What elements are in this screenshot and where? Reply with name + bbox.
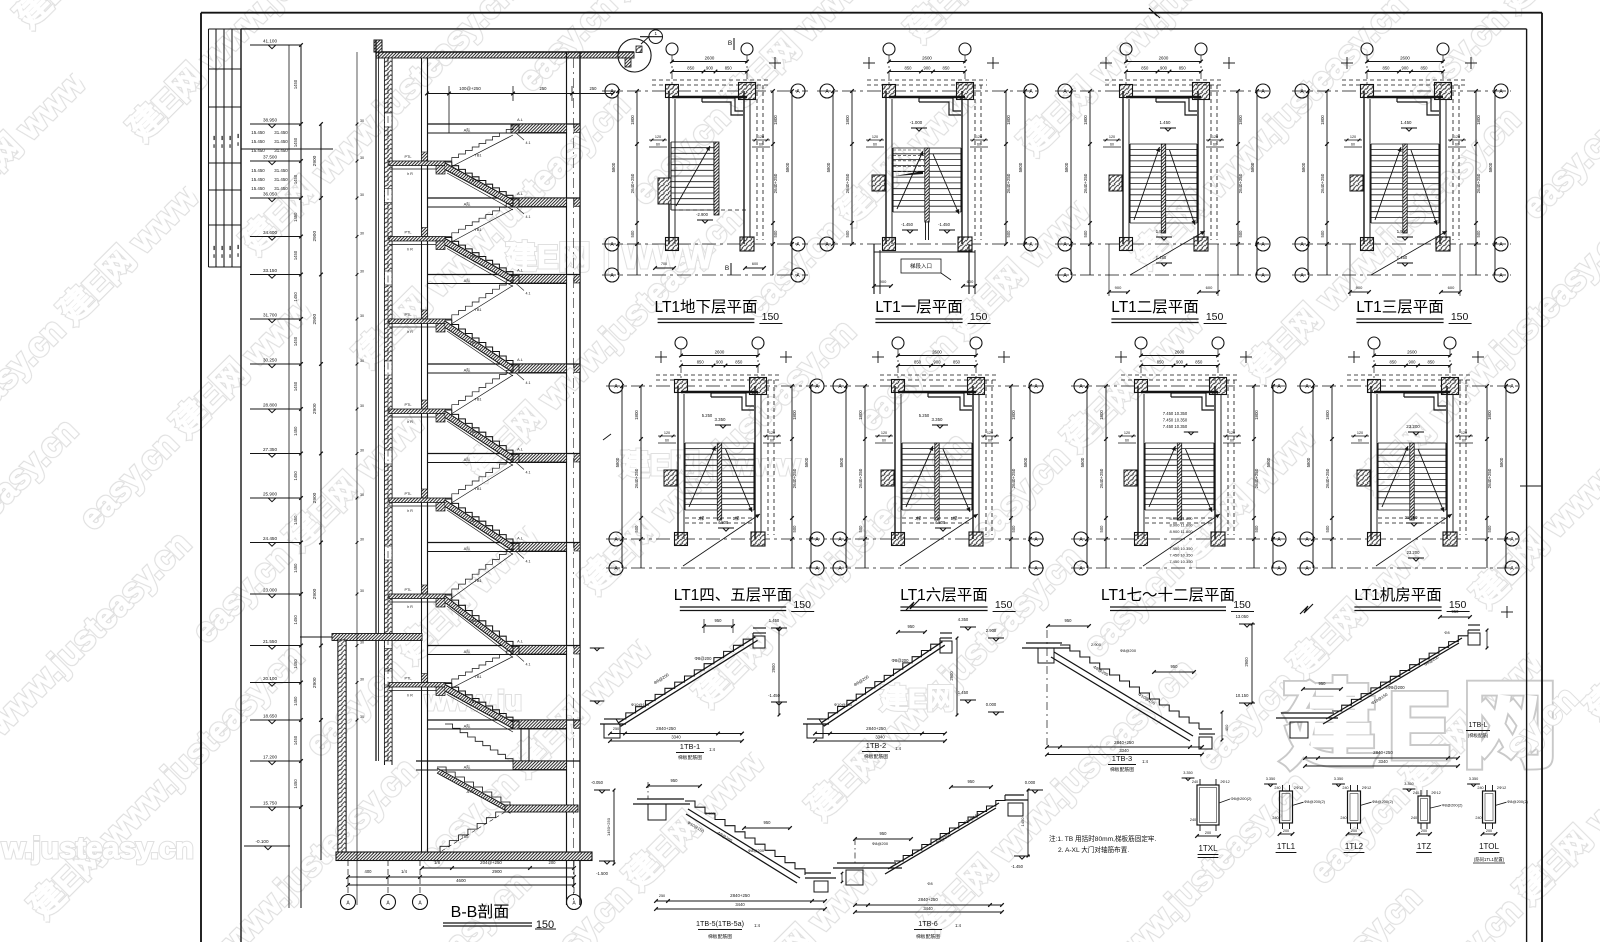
svg-text:3.350: 3.350 (1266, 777, 1276, 781)
svg-text:24.450: 24.450 (263, 536, 277, 541)
svg-text:2600: 2600 (1400, 56, 1410, 61)
svg-text:2640+250: 2640+250 (1325, 468, 1330, 488)
svg-text:27.350: 27.350 (263, 447, 277, 452)
svg-text:17.200: 17.200 (263, 755, 277, 760)
svg-text:1450: 1450 (293, 174, 298, 184)
svg-text:1/4: 1/4 (401, 869, 407, 874)
svg-text:2640+250: 2640+250 (630, 173, 635, 193)
svg-text:2640+250: 2640+250 (1476, 173, 1481, 193)
svg-text:2640+250: 2640+250 (1254, 468, 1259, 488)
svg-text:850: 850 (1179, 66, 1187, 71)
svg-text:PTL: PTL (405, 677, 412, 681)
svg-text:LT1三层平面: LT1三层平面 (1356, 299, 1444, 316)
svg-text:5800: 5800 (615, 457, 620, 467)
svg-text:Φ8@200: Φ8@200 (1120, 648, 1137, 653)
svg-text:3.350: 3.350 (1469, 777, 1479, 781)
svg-text:500: 500 (1006, 230, 1011, 238)
svg-text:34.600: 34.600 (263, 230, 277, 235)
svg-text:120: 120 (1229, 431, 1235, 435)
svg-text:梯板配筋图: 梯板配筋图 (678, 754, 702, 761)
svg-text:200: 200 (1205, 831, 1211, 835)
svg-text:2600: 2600 (705, 56, 715, 61)
svg-text:200: 200 (1351, 829, 1357, 833)
svg-text:1800: 1800 (1099, 410, 1104, 420)
svg-text:7.450 10.350: 7.450 10.350 (1163, 411, 1188, 416)
svg-text:▬: ▬ (221, 144, 225, 148)
svg-text:5.250: 5.250 (919, 413, 930, 418)
svg-text:5800: 5800 (1023, 457, 1028, 467)
svg-text:1:4: 1:4 (709, 747, 715, 752)
svg-text:30: 30 (360, 270, 364, 274)
svg-text:1/8: 1/8 (434, 860, 440, 865)
svg-text:5800: 5800 (1266, 457, 1271, 467)
svg-text:900: 900 (1409, 360, 1417, 365)
svg-text:TB1a: TB1a (469, 519, 479, 523)
svg-text:5.250: 5.250 (702, 413, 713, 418)
svg-text:3.350: 3.350 (1334, 777, 1344, 781)
svg-text:▬: ▬ (213, 254, 217, 258)
svg-text:1800: 1800 (858, 410, 863, 420)
svg-text:LT1机房平面: LT1机房平面 (1354, 586, 1442, 604)
svg-text:J梯: J梯 (698, 515, 705, 522)
svg-text:4.1: 4.1 (526, 141, 531, 145)
svg-text:120: 120 (1212, 135, 1218, 139)
svg-text:21.750: 21.750 (1405, 515, 1418, 520)
svg-text:2Φ12: 2Φ12 (1220, 780, 1229, 784)
svg-text:4.1: 4.1 (526, 560, 531, 564)
svg-text:850: 850 (687, 66, 695, 71)
svg-text:PTL: PTL (405, 588, 412, 592)
svg-text:1450: 1450 (293, 212, 298, 222)
svg-text:1800: 1800 (1325, 410, 1330, 420)
svg-text:5800: 5800 (1499, 457, 1504, 467)
svg-text:500: 500 (858, 525, 863, 533)
svg-text:h R: h R (407, 694, 413, 698)
svg-text:TB1a: TB1a (469, 700, 479, 704)
svg-text:60: 60 (665, 439, 669, 443)
svg-text:950: 950 (968, 779, 976, 784)
svg-text:A.L: A.L (517, 192, 523, 196)
svg-text:1800: 1800 (634, 410, 639, 420)
svg-text:100@+250: 100@+250 (459, 86, 481, 91)
svg-text:▬: ▬ (221, 254, 225, 258)
svg-text:▬: ▬ (237, 253, 241, 257)
svg-text:950: 950 (764, 820, 772, 825)
svg-text:1450: 1450 (293, 250, 298, 260)
svg-text:500: 500 (1476, 230, 1481, 238)
svg-text:20.100: 20.100 (263, 676, 277, 681)
svg-text:-0.100: -0.100 (255, 839, 268, 844)
svg-text:8.900 11.800: 8.900 11.800 (1169, 529, 1193, 534)
svg-text:建E网: 建E网 (880, 683, 955, 714)
svg-text:500: 500 (1325, 525, 1330, 533)
svg-text:2840+250: 2840+250 (656, 726, 676, 731)
svg-text:1梯: 1梯 (733, 515, 740, 522)
svg-text:3340: 3340 (1119, 748, 1129, 753)
svg-text:TB1: TB1 (475, 308, 482, 312)
svg-text:LT1二层平面: LT1二层平面 (1111, 299, 1199, 316)
svg-text:LT1地下层平面: LT1地下层平面 (654, 298, 757, 316)
svg-text:4.1: 4.1 (526, 215, 531, 219)
svg-text:1:4: 1:4 (1142, 759, 1148, 764)
svg-text:500: 500 (1011, 525, 1016, 533)
svg-text:1:4: 1:4 (754, 923, 760, 928)
svg-text:950: 950 (1171, 664, 1179, 669)
svg-text:A队: A队 (464, 277, 471, 283)
svg-text:240: 240 (1190, 818, 1196, 822)
svg-text:3340: 3340 (875, 735, 885, 740)
svg-text:5800: 5800 (1306, 457, 1311, 467)
svg-text:2.900: 2.900 (1091, 642, 1102, 647)
svg-text:850: 850 (1390, 360, 1398, 365)
svg-text:8.900 11.800: 8.900 11.800 (1169, 523, 1193, 528)
svg-text:4.800: 4.800 (935, 520, 946, 525)
svg-text:240: 240 (1272, 816, 1278, 820)
svg-text:2. A-XL 大门对轴筋布置.: 2. A-XL 大门对轴筋布置. (1058, 845, 1129, 854)
svg-text:30: 30 (360, 119, 364, 123)
svg-text:A队: A队 (464, 764, 471, 770)
svg-text:2640+250: 2640+250 (792, 468, 797, 488)
svg-text:A队: A队 (464, 127, 471, 133)
svg-text:PTL: PTL (405, 492, 412, 496)
svg-text:梯板配筋图: 梯板配筋图 (1110, 766, 1134, 773)
svg-text:950: 950 (1319, 681, 1327, 686)
svg-text:1450: 1450 (293, 79, 298, 89)
svg-text:60: 60 (759, 143, 763, 147)
svg-text:15.450: 15.450 (251, 177, 265, 182)
svg-text:1450: 1450 (293, 470, 298, 480)
svg-text:4.1: 4.1 (526, 471, 531, 475)
svg-text:240: 240 (1340, 816, 1346, 820)
svg-text:Φ8@200: Φ8@200 (748, 848, 765, 853)
svg-text:1450: 1450 (293, 336, 298, 346)
svg-text:2640+250: 2640+250 (845, 173, 850, 193)
svg-text:2900: 2900 (949, 671, 954, 681)
svg-text:1450: 1450 (1020, 817, 1025, 827)
svg-text:2600: 2600 (1159, 56, 1169, 61)
svg-text:950: 950 (715, 618, 723, 623)
svg-text:1TB-5(1TB-5a): 1TB-5(1TB-5a) (696, 919, 744, 928)
svg-text:-1.450: -1.450 (1011, 864, 1024, 869)
svg-text:A.L: A.L (517, 269, 523, 273)
svg-text:PTL: PTL (405, 403, 412, 407)
svg-text:30: 30 (360, 314, 364, 318)
svg-text:900: 900 (1115, 285, 1122, 290)
svg-text:1450: 1450 (293, 137, 298, 147)
svg-text:30.250: 30.250 (263, 358, 277, 363)
svg-text:200: 200 (1421, 829, 1427, 833)
svg-text:Φ8@200: Φ8@200 (892, 658, 910, 663)
svg-text:2640+250: 2640+250 (1083, 173, 1088, 193)
svg-text:150: 150 (793, 599, 811, 611)
svg-text:1.450: 1.450 (1401, 120, 1413, 125)
svg-text:30: 30 (360, 156, 364, 160)
svg-text:2840+250: 2840+250 (1373, 750, 1393, 755)
svg-text:2840+250: 2840+250 (918, 897, 938, 902)
svg-text:梯段入口: 梯段入口 (910, 262, 932, 270)
svg-text:900: 900 (1402, 66, 1410, 71)
svg-text:▬: ▬ (229, 254, 233, 258)
svg-text:B: B (728, 40, 732, 47)
svg-text:5800: 5800 (804, 457, 809, 467)
svg-text:2900: 2900 (312, 403, 318, 414)
svg-text:(筋同1TL1配置): (筋同1TL1配置) (1474, 856, 1505, 863)
svg-text:Φ8@200: Φ8@200 (695, 656, 713, 661)
svg-text:7.450 10.350: 7.450 10.350 (1163, 424, 1188, 429)
svg-text:13.050: 13.050 (1236, 614, 1249, 619)
svg-text:60: 60 (1213, 143, 1217, 147)
svg-text:500: 500 (1099, 525, 1104, 533)
svg-text:240: 240 (1413, 791, 1419, 795)
svg-text:2600: 2600 (932, 350, 942, 355)
svg-text:4.1: 4.1 (526, 663, 531, 667)
svg-text:1.930: 1.930 (1156, 229, 1167, 234)
svg-text:PTL: PTL (405, 313, 412, 317)
svg-text:h R: h R (407, 605, 413, 609)
svg-text:Φ8@200: Φ8@200 (872, 841, 889, 846)
svg-text:Φ8: Φ8 (927, 882, 932, 886)
svg-text:240: 240 (1477, 786, 1483, 790)
svg-text:240: 240 (1192, 780, 1198, 784)
svg-text:1800: 1800 (630, 115, 635, 125)
svg-text:h R: h R (407, 172, 413, 176)
svg-text:TB1: TB1 (475, 579, 482, 583)
svg-text:3.350: 3.350 (1404, 782, 1414, 786)
svg-text:30: 30 (360, 538, 364, 542)
svg-text:500: 500 (773, 230, 778, 238)
svg-text:0.000: 0.000 (986, 702, 997, 707)
svg-text:h R: h R (407, 420, 413, 424)
svg-text:2640+250: 2640+250 (1238, 173, 1243, 193)
svg-text:850: 850 (1141, 66, 1149, 71)
svg-text:150: 150 (995, 599, 1013, 611)
svg-text:15.450: 15.450 (251, 168, 265, 173)
svg-text:450: 450 (1224, 724, 1229, 731)
svg-text:-2.900: -2.900 (696, 212, 709, 217)
svg-text:5800: 5800 (1250, 162, 1255, 172)
svg-text:3340: 3340 (671, 735, 681, 740)
svg-text:2600: 2600 (1175, 350, 1185, 355)
svg-text:5800: 5800 (785, 162, 790, 172)
svg-text:500: 500 (634, 525, 639, 533)
svg-text:LT1四、五层平面: LT1四、五层平面 (674, 587, 793, 604)
svg-text:2.900: 2.900 (986, 628, 997, 633)
svg-text:▬: ▬ (229, 144, 233, 148)
svg-text:120: 120 (769, 431, 775, 435)
svg-text:2840+250: 2840+250 (866, 726, 886, 731)
svg-text:2900: 2900 (312, 677, 318, 688)
svg-text:1TL2: 1TL2 (1345, 842, 1364, 851)
svg-text:37.500: 37.500 (263, 155, 277, 160)
svg-text:120: 120 (664, 431, 670, 435)
svg-text:Φ10@150: Φ10@150 (631, 702, 650, 707)
svg-text:500: 500 (1083, 230, 1088, 238)
svg-text:850: 850 (697, 360, 705, 365)
svg-text:500: 500 (1238, 230, 1243, 238)
svg-text:-1.500: -1.500 (596, 871, 609, 876)
svg-text:TB5: TB5 (462, 835, 469, 839)
svg-text:2600: 2600 (922, 56, 932, 61)
svg-text:TB1: TB1 (475, 228, 482, 232)
svg-text:30: 30 (360, 715, 364, 719)
svg-text:1450: 1450 (293, 563, 298, 573)
svg-text:850: 850 (914, 360, 922, 365)
svg-text:60: 60 (988, 439, 992, 443)
svg-text:60: 60 (1230, 439, 1234, 443)
svg-text:60: 60 (1125, 439, 1129, 443)
svg-text:204@+250: 204@+250 (480, 860, 502, 865)
svg-text:1800: 1800 (1238, 115, 1243, 125)
svg-text:38.950: 38.950 (263, 118, 277, 123)
svg-text:850: 850 (1383, 66, 1391, 71)
svg-text:60: 60 (1455, 143, 1459, 147)
svg-text:2900: 2900 (312, 314, 318, 325)
svg-text:500: 500 (1254, 525, 1259, 533)
svg-text:5800: 5800 (1080, 457, 1085, 467)
svg-text:B: B (725, 265, 729, 272)
svg-text:5800: 5800 (1064, 162, 1069, 172)
svg-text:TB1: TB1 (475, 154, 482, 158)
svg-text:18.650: 18.650 (263, 714, 277, 719)
svg-text:1800: 1800 (845, 115, 850, 125)
svg-text:1TL1: 1TL1 (1277, 842, 1296, 851)
svg-text:0.000: 0.000 (1025, 780, 1036, 785)
svg-text:850: 850 (953, 360, 961, 365)
svg-text:250: 250 (613, 727, 619, 731)
svg-text:23.200: 23.200 (1406, 424, 1420, 429)
svg-text:240: 240 (1274, 786, 1280, 790)
svg-text:30: 30 (360, 359, 364, 363)
svg-text:600: 600 (752, 262, 758, 266)
svg-text:3.350: 3.350 (715, 417, 727, 422)
svg-text:500: 500 (845, 230, 850, 238)
svg-text:1:4: 1:4 (895, 746, 901, 751)
svg-text:2900: 2900 (312, 588, 318, 599)
svg-text:1800: 1800 (1011, 410, 1016, 420)
svg-text:25.900: 25.900 (263, 492, 277, 497)
svg-text:200: 200 (1283, 829, 1289, 833)
svg-text:TB1: TB1 (475, 487, 482, 491)
svg-text:850: 850 (1157, 360, 1165, 365)
svg-text:Φ8@200(2): Φ8@200(2) (1507, 799, 1529, 804)
svg-text:1450: 1450 (293, 291, 298, 301)
svg-text:31.450: 31.450 (274, 168, 288, 173)
svg-text:梯板配筋图: 梯板配筋图 (864, 753, 888, 760)
svg-text:250: 250 (659, 894, 665, 898)
svg-text:900: 900 (880, 279, 887, 284)
svg-text:1.450: 1.450 (1160, 120, 1172, 125)
svg-text:900: 900 (716, 360, 724, 365)
svg-text:500: 500 (630, 230, 635, 238)
svg-text:120: 120 (872, 135, 878, 139)
svg-text:2600: 2600 (1407, 350, 1417, 355)
svg-text:120: 120 (987, 431, 993, 435)
svg-text:1450: 1450 (293, 426, 298, 436)
svg-text:120: 120 (758, 135, 764, 139)
svg-text:30: 30 (360, 641, 364, 645)
svg-text:250: 250 (590, 86, 598, 91)
svg-text:120: 120 (1357, 431, 1363, 435)
svg-text:3440: 3440 (735, 902, 745, 907)
svg-text:5800: 5800 (826, 162, 831, 172)
svg-text:1450: 1450 (293, 381, 298, 391)
svg-text:250: 250 (540, 86, 548, 91)
svg-text:1450+250: 1450+250 (606, 817, 611, 836)
svg-text:3340: 3340 (1378, 759, 1388, 764)
svg-text:Φ8@200(2): Φ8@200(2) (1304, 799, 1326, 804)
svg-text:1.450: 1.450 (769, 618, 780, 623)
svg-text:1TXL: 1TXL (1198, 844, 1218, 853)
svg-text:950: 950 (908, 624, 916, 629)
svg-text:5800: 5800 (1301, 162, 1306, 172)
svg-text:TB1: TB1 (475, 675, 482, 679)
svg-text:15.450: 15.450 (251, 130, 265, 135)
svg-text:60: 60 (770, 439, 774, 443)
svg-text:3.350: 3.350 (932, 417, 944, 422)
svg-text:2840+250: 2840+250 (1114, 740, 1134, 745)
svg-text:TB1a: TB1a (469, 341, 479, 345)
svg-text:1800: 1800 (1487, 410, 1492, 420)
svg-text:2.900: 2.900 (705, 812, 715, 816)
svg-text:500: 500 (792, 525, 797, 533)
svg-text:150: 150 (1233, 599, 1251, 611)
svg-text:h R: h R (407, 248, 413, 252)
svg-text:1800: 1800 (773, 115, 778, 125)
svg-text:2Φ12: 2Φ12 (1497, 786, 1506, 790)
svg-text:J梯: J梯 (915, 515, 922, 522)
svg-text:900: 900 (934, 360, 942, 365)
svg-text:注:1. TB 用括时80mm,梯板筋固定牢.: 注:1. TB 用括时80mm,梯板筋固定牢. (1049, 834, 1157, 843)
svg-text:850: 850 (905, 66, 913, 71)
svg-text:▬: ▬ (237, 142, 241, 146)
svg-text:36.050: 36.050 (263, 192, 277, 197)
svg-text:900: 900 (924, 66, 932, 71)
svg-text:1TB-6: 1TB-6 (918, 919, 938, 928)
svg-text:400: 400 (365, 869, 373, 874)
svg-text:600: 600 (967, 279, 974, 284)
svg-text:60: 60 (1358, 439, 1362, 443)
svg-text:2900: 2900 (312, 492, 318, 503)
svg-text:1800: 1800 (792, 410, 797, 420)
svg-text:150: 150 (1206, 311, 1224, 323)
svg-text:8.900 11.800: 8.900 11.800 (1169, 516, 1193, 521)
svg-text:120: 120 (1109, 135, 1115, 139)
svg-text:PTL: PTL (405, 155, 412, 159)
svg-text:4.1: 4.1 (526, 292, 531, 296)
svg-text:30: 30 (360, 232, 364, 236)
svg-text:B-B剖面: B-B剖面 (451, 903, 510, 921)
svg-text:1梯: 1梯 (951, 515, 958, 522)
svg-text:240: 240 (1411, 816, 1417, 820)
svg-text:120: 120 (1454, 135, 1460, 139)
svg-text:A队: A队 (464, 723, 471, 729)
svg-text:Φ8@200(2): Φ8@200(2) (1372, 799, 1394, 804)
svg-text:900: 900 (1176, 360, 1184, 365)
svg-text:(梯板配筋): (梯板配筋) (1468, 732, 1489, 739)
svg-text:TB1: TB1 (475, 398, 482, 402)
svg-text:1800: 1800 (1083, 115, 1088, 125)
svg-text:23.200: 23.200 (1407, 550, 1420, 555)
svg-text:120: 120 (1350, 135, 1356, 139)
svg-text:1800: 1800 (1254, 410, 1259, 420)
svg-text:2640+250: 2640+250 (1006, 173, 1011, 193)
svg-text:240: 240 (1342, 786, 1348, 790)
svg-text:5800: 5800 (1018, 162, 1023, 172)
svg-text:850: 850 (735, 360, 743, 365)
svg-text:2900: 2900 (492, 869, 502, 874)
svg-text:30: 30 (360, 404, 364, 408)
svg-text:1TB-3: 1TB-3 (1112, 754, 1132, 763)
